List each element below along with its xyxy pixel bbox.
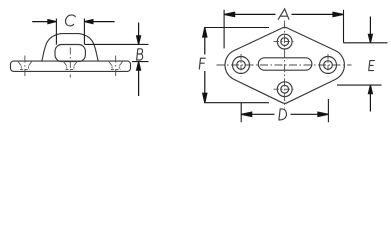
label B [137,49,143,60]
hole bottom (top view) [277,82,292,97]
central slot (top view) [258,58,312,70]
eye strap dome (side view) [42,34,98,62]
dimension C arrows [32,20,114,24]
eye slot opening (side view) [55,45,85,62]
dimension C extension lines [56,19,84,45]
crosshair left hole [240,54,242,77]
centerline hole 2 [69,48,71,78]
hole left (top view) [233,57,250,74]
label E [369,61,375,71]
dimension B extension lines [85,44,149,61]
dimension D extension lines [241,99,328,122]
crosshair right hole [327,54,329,77]
centerline hole 1 [24,56,26,78]
label A [278,9,289,19]
crosshair top hole [274,41,296,43]
dimension E extension lines [337,43,388,85]
dimension B arrows [137,23,141,97]
label C [65,15,75,26]
dimension A line and arrows [224,12,343,16]
horizontal centerline (top view) [217,64,352,66]
dimension A extension lines [224,10,343,49]
dimension D line and arrows [241,112,328,116]
dimension F extension lines [204,28,269,103]
hole right (top view) [320,57,337,74]
centerline hole 3 [115,56,117,78]
label F [199,58,205,69]
label D [279,109,287,120]
crosshair bottom hole [274,88,296,90]
base plate (side view) [11,61,131,71]
countersunk hole 2 (center, side view) [63,61,77,69]
countersunk hole 1 (left, side view) [18,61,32,69]
dimension F line and arrows [203,28,207,103]
diamond eye plate outline (top view) [225,27,344,103]
countersunk hole 3 (right, side view) [109,61,123,69]
dimension E arrows [368,17,372,112]
vertical centerline (top view) [284,21,286,109]
hole top (top view) [277,34,292,49]
